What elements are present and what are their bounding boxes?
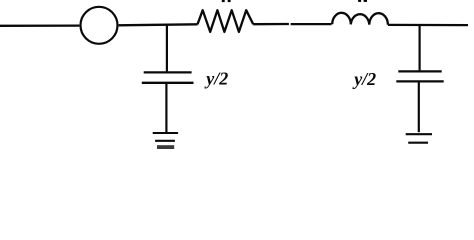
svg-text:y/2: y/2	[352, 69, 376, 89]
svg-text:y/2: y/2	[204, 69, 228, 89]
